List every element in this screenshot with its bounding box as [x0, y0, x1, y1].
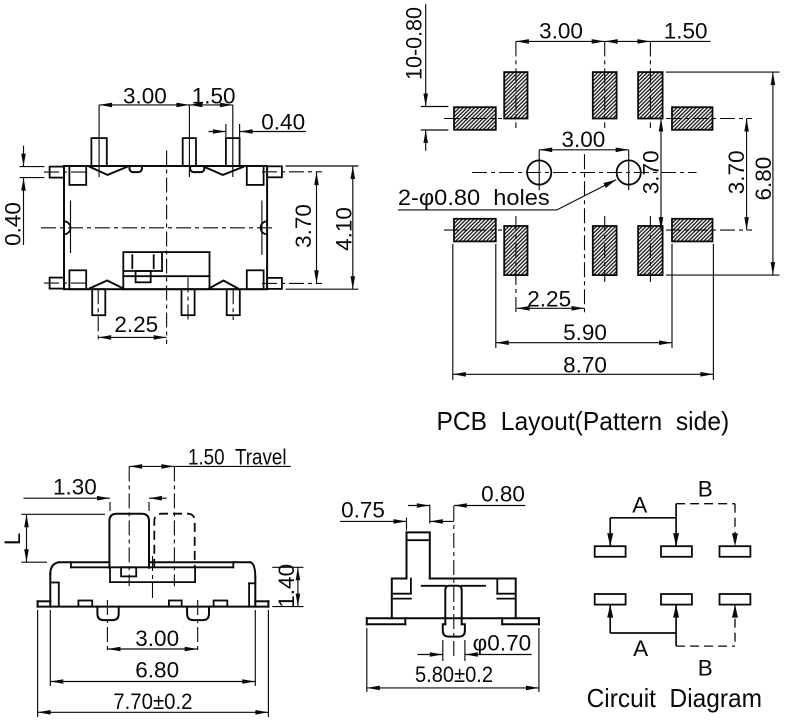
- pcb hole 2: [617, 150, 641, 190]
- circuit terminal 1: [595, 546, 626, 557]
- front view knob phantom centerline: [173, 466, 175, 586]
- dim 3.70 pcb outer: [724, 119, 749, 231]
- top view pin 4 bottom: [92, 289, 105, 341]
- pcb pad bottom-3: [638, 226, 663, 275]
- top view corner tab TR: [247, 166, 264, 185]
- top view V-notch top-left: [90, 167, 127, 175]
- pcb pad centerline col1: [515, 41, 517, 128]
- top view slider contact tick 1: [131, 255, 133, 268]
- front view body corner arc left: [50, 562, 59, 574]
- wire A top: [607, 504, 679, 547]
- top view side dimple right: [261, 221, 267, 234]
- svg-text:0.40: 0.40: [0, 202, 25, 246]
- dim 0.40 top view lug thickness: [0, 146, 44, 246]
- top view inner wall line right: [261, 201, 263, 255]
- pcb side pad centerline left-top: [444, 118, 502, 120]
- top view pin 2 top: [183, 105, 196, 177]
- top view side lug left-bottom: [44, 278, 90, 289]
- front view body corner arc right: [250, 562, 255, 577]
- dim 7.70 front: [38, 610, 269, 717]
- top view inner wall line left: [70, 201, 72, 254]
- pcb side pad centerline right-bottom: [666, 229, 752, 231]
- pcb pad centerline col3: [649, 41, 651, 128]
- front view foot 2: [187, 607, 209, 621]
- dim 5.90 pcb: [496, 244, 672, 348]
- svg-text:B: B: [698, 656, 713, 681]
- pcb vertical centerline: [584, 154, 586, 316]
- front view body bottom edge: [38, 606, 269, 608]
- svg-text:5.90: 5.90: [563, 320, 607, 345]
- dim 1.50 top view: [189, 84, 235, 109]
- dim 3.00 top view: [99, 84, 189, 109]
- svg-text:6.80: 6.80: [135, 658, 179, 683]
- front view body right edge: [254, 578, 256, 607]
- svg-text:B: B: [698, 477, 713, 502]
- dim 2.25 pcb: [517, 287, 585, 312]
- pcb hole 1: [527, 150, 551, 190]
- svg-text:10-0.80: 10-0.80: [401, 7, 426, 80]
- svg-text:7.70±0.2: 7.70±0.2: [113, 689, 192, 714]
- wire B bottom dashed: [676, 605, 738, 647]
- front view slider nub: [121, 567, 136, 576]
- wire A bottom: [607, 605, 679, 647]
- dim 0.80 side: [408, 482, 525, 524]
- svg-text:3.00: 3.00: [539, 19, 583, 44]
- svg-text:0.75: 0.75: [341, 498, 385, 523]
- side view pin centerline: [453, 506, 455, 660]
- front view terminal stub 3: [214, 601, 228, 607]
- circuit terminal 2: [661, 546, 692, 557]
- pcb pad side right-top: [672, 107, 713, 130]
- pcb pad centerline col2: [604, 41, 606, 128]
- dim 2.25 top view: [98, 312, 166, 340]
- dim 6.80 pcb: [666, 72, 780, 275]
- front view terminal stub 1: [78, 601, 92, 607]
- top view slider window: [123, 252, 209, 289]
- front view foot centerline 1: [106, 600, 108, 652]
- front view knob phantom: [154, 514, 194, 568]
- pcb pad centerline col1 bottom: [515, 216, 517, 316]
- dim 4.10 top view: [286, 166, 359, 289]
- svg-text:3.70: 3.70: [724, 150, 749, 194]
- front view inner wall right: [249, 583, 255, 606]
- svg-text:6.80: 6.80: [751, 157, 776, 201]
- pcb pad top-3: [638, 72, 663, 118]
- front view foot 1: [97, 607, 118, 621]
- circuit terminal 5: [661, 594, 692, 605]
- svg-text:5.80±0.2: 5.80±0.2: [415, 662, 493, 687]
- svg-text:0.80: 0.80: [481, 482, 525, 507]
- pcb pad top-1: [504, 72, 527, 118]
- front view body left edge: [49, 574, 51, 607]
- front view inner wall left: [50, 583, 59, 607]
- top view slider inner box: [123, 252, 162, 271]
- front view slider plate: [110, 567, 195, 582]
- top view pin 3 top: [226, 105, 240, 177]
- svg-text:A: A: [632, 493, 647, 518]
- side view corner notch right: [497, 579, 515, 599]
- circuit terminal 6: [720, 594, 751, 605]
- label B top: [698, 477, 713, 502]
- circuit terminal 3: [720, 546, 751, 557]
- dim phi0.70 side: [418, 631, 532, 662]
- front view mount tab right: [255, 601, 268, 606]
- side view knob: [407, 532, 430, 578]
- circuit diagram title: [587, 683, 762, 713]
- top view corner tab BR: [247, 270, 264, 289]
- top view slider nub: [136, 271, 151, 282]
- pcb horizontal centerline: [472, 172, 697, 174]
- pcb pad side right-bottom: [672, 219, 713, 242]
- pcb pad centerline col3 bottom: [649, 216, 651, 282]
- circuit terminal 4: [595, 594, 626, 605]
- svg-text:3.70: 3.70: [639, 150, 664, 194]
- dim 3.00 pcb top: [516, 19, 605, 44]
- label A bottom: [633, 636, 648, 661]
- front view mount tab left: [38, 601, 51, 606]
- dim 1.50 pcb top: [605, 19, 711, 44]
- label 2-phi0.80 holes: [398, 180, 616, 211]
- svg-text:3.00: 3.00: [135, 626, 179, 651]
- top view V-notch top-right: [204, 167, 243, 175]
- dim 8.70 pcb: [453, 244, 714, 380]
- pcb side pad centerline left-bottom: [444, 229, 502, 231]
- top view corner tab BL: [69, 270, 86, 289]
- svg-text:φ0.70: φ0.70: [473, 631, 532, 656]
- top view pin 6 bottom: [227, 289, 240, 320]
- pcb pad top-2: [593, 72, 617, 118]
- svg-text:2.25: 2.25: [114, 312, 158, 337]
- svg-text:1.40: 1.40: [274, 564, 299, 608]
- top view body outline: [64, 166, 267, 289]
- dim 0.75 side: [340, 498, 454, 531]
- dim 3.00 front: [107, 626, 197, 651]
- side view center pin: [443, 586, 465, 637]
- dim 1.40 front: [272, 564, 303, 608]
- dim 0.40 top view pin width: [209, 110, 307, 138]
- pcb pad centerline col2 bottom: [604, 216, 606, 282]
- pcb side pad centerline right-top: [666, 118, 752, 120]
- side view corner notch left: [392, 579, 411, 599]
- front view cover line: [71, 562, 233, 567]
- label B bottom: [698, 656, 713, 681]
- front view knob centerline: [128, 466, 130, 586]
- svg-text:1.50 Travel: 1.50 Travel: [188, 445, 287, 470]
- svg-text:2-φ0.80 holes: 2-φ0.80 holes: [398, 185, 550, 210]
- front view knob solid: [109, 514, 149, 568]
- dim 3.70 pcb inner: [639, 119, 664, 231]
- label A top: [632, 493, 647, 518]
- pcb layout title: [437, 406, 730, 436]
- top view U-notch top-right: [190, 167, 204, 172]
- svg-text:A: A: [633, 636, 648, 661]
- side view body: [392, 579, 516, 619]
- side view mount tab right: [502, 618, 539, 624]
- pcb pad side left-top: [454, 107, 496, 130]
- pcb pad side left-bottom: [454, 219, 496, 242]
- wire B top dashed: [676, 504, 738, 547]
- front view foot centerline 2: [197, 600, 199, 652]
- side view inner top line: [422, 585, 485, 587]
- svg-text:PCB Layout(Pattern side): PCB Layout(Pattern side): [437, 406, 730, 436]
- pcb pad bottom-2: [593, 226, 617, 275]
- svg-text:1.30: 1.30: [53, 475, 97, 500]
- pcb pad bottom-1: [504, 226, 527, 275]
- top view pin 5 bottom: [182, 278, 195, 321]
- front view vertical centerline: [152, 556, 154, 600]
- dim 1.50 Travel: [129, 445, 291, 470]
- top view horizontal centerline: [41, 227, 274, 229]
- top view side lug right-top: [262, 166, 322, 177]
- dim L front: [0, 514, 105, 562]
- svg-text:L: L: [0, 533, 25, 546]
- top view side lug right-bottom: [262, 278, 322, 289]
- side view mount tab left: [367, 618, 406, 624]
- svg-text:Circuit Diagram: Circuit Diagram: [587, 683, 762, 713]
- top view side lug left-top: [44, 167, 90, 178]
- dim 5.80 side: [367, 628, 539, 692]
- top view side dimple left: [64, 221, 71, 234]
- svg-text:0.40: 0.40: [261, 110, 305, 135]
- top view slider mid line: [123, 275, 209, 277]
- front view terminal stub 2: [169, 601, 182, 607]
- svg-text:3.70: 3.70: [291, 204, 316, 248]
- top view slider contact tick 2: [153, 255, 155, 268]
- dim 3.00 pcb holes: [539, 127, 629, 152]
- svg-text:3.00: 3.00: [562, 127, 606, 152]
- top view corner tab TL: [69, 166, 86, 185]
- dim 3.70 top view: [291, 172, 319, 283]
- svg-text:1.50: 1.50: [664, 19, 708, 44]
- top view pin 1 top: [91, 105, 106, 177]
- dim 10-0.80 pcb: [401, 4, 448, 151]
- top view V-notch bottom-left: [90, 281, 123, 289]
- dim 1.30 front: [24, 475, 167, 512]
- top view U-notch top-left: [130, 167, 142, 172]
- dim 6.80 front: [50, 610, 255, 686]
- top view vertical centerline: [166, 151, 168, 345]
- top view V-notch bottom-right: [209, 281, 237, 289]
- front view body top edge: [59, 561, 250, 563]
